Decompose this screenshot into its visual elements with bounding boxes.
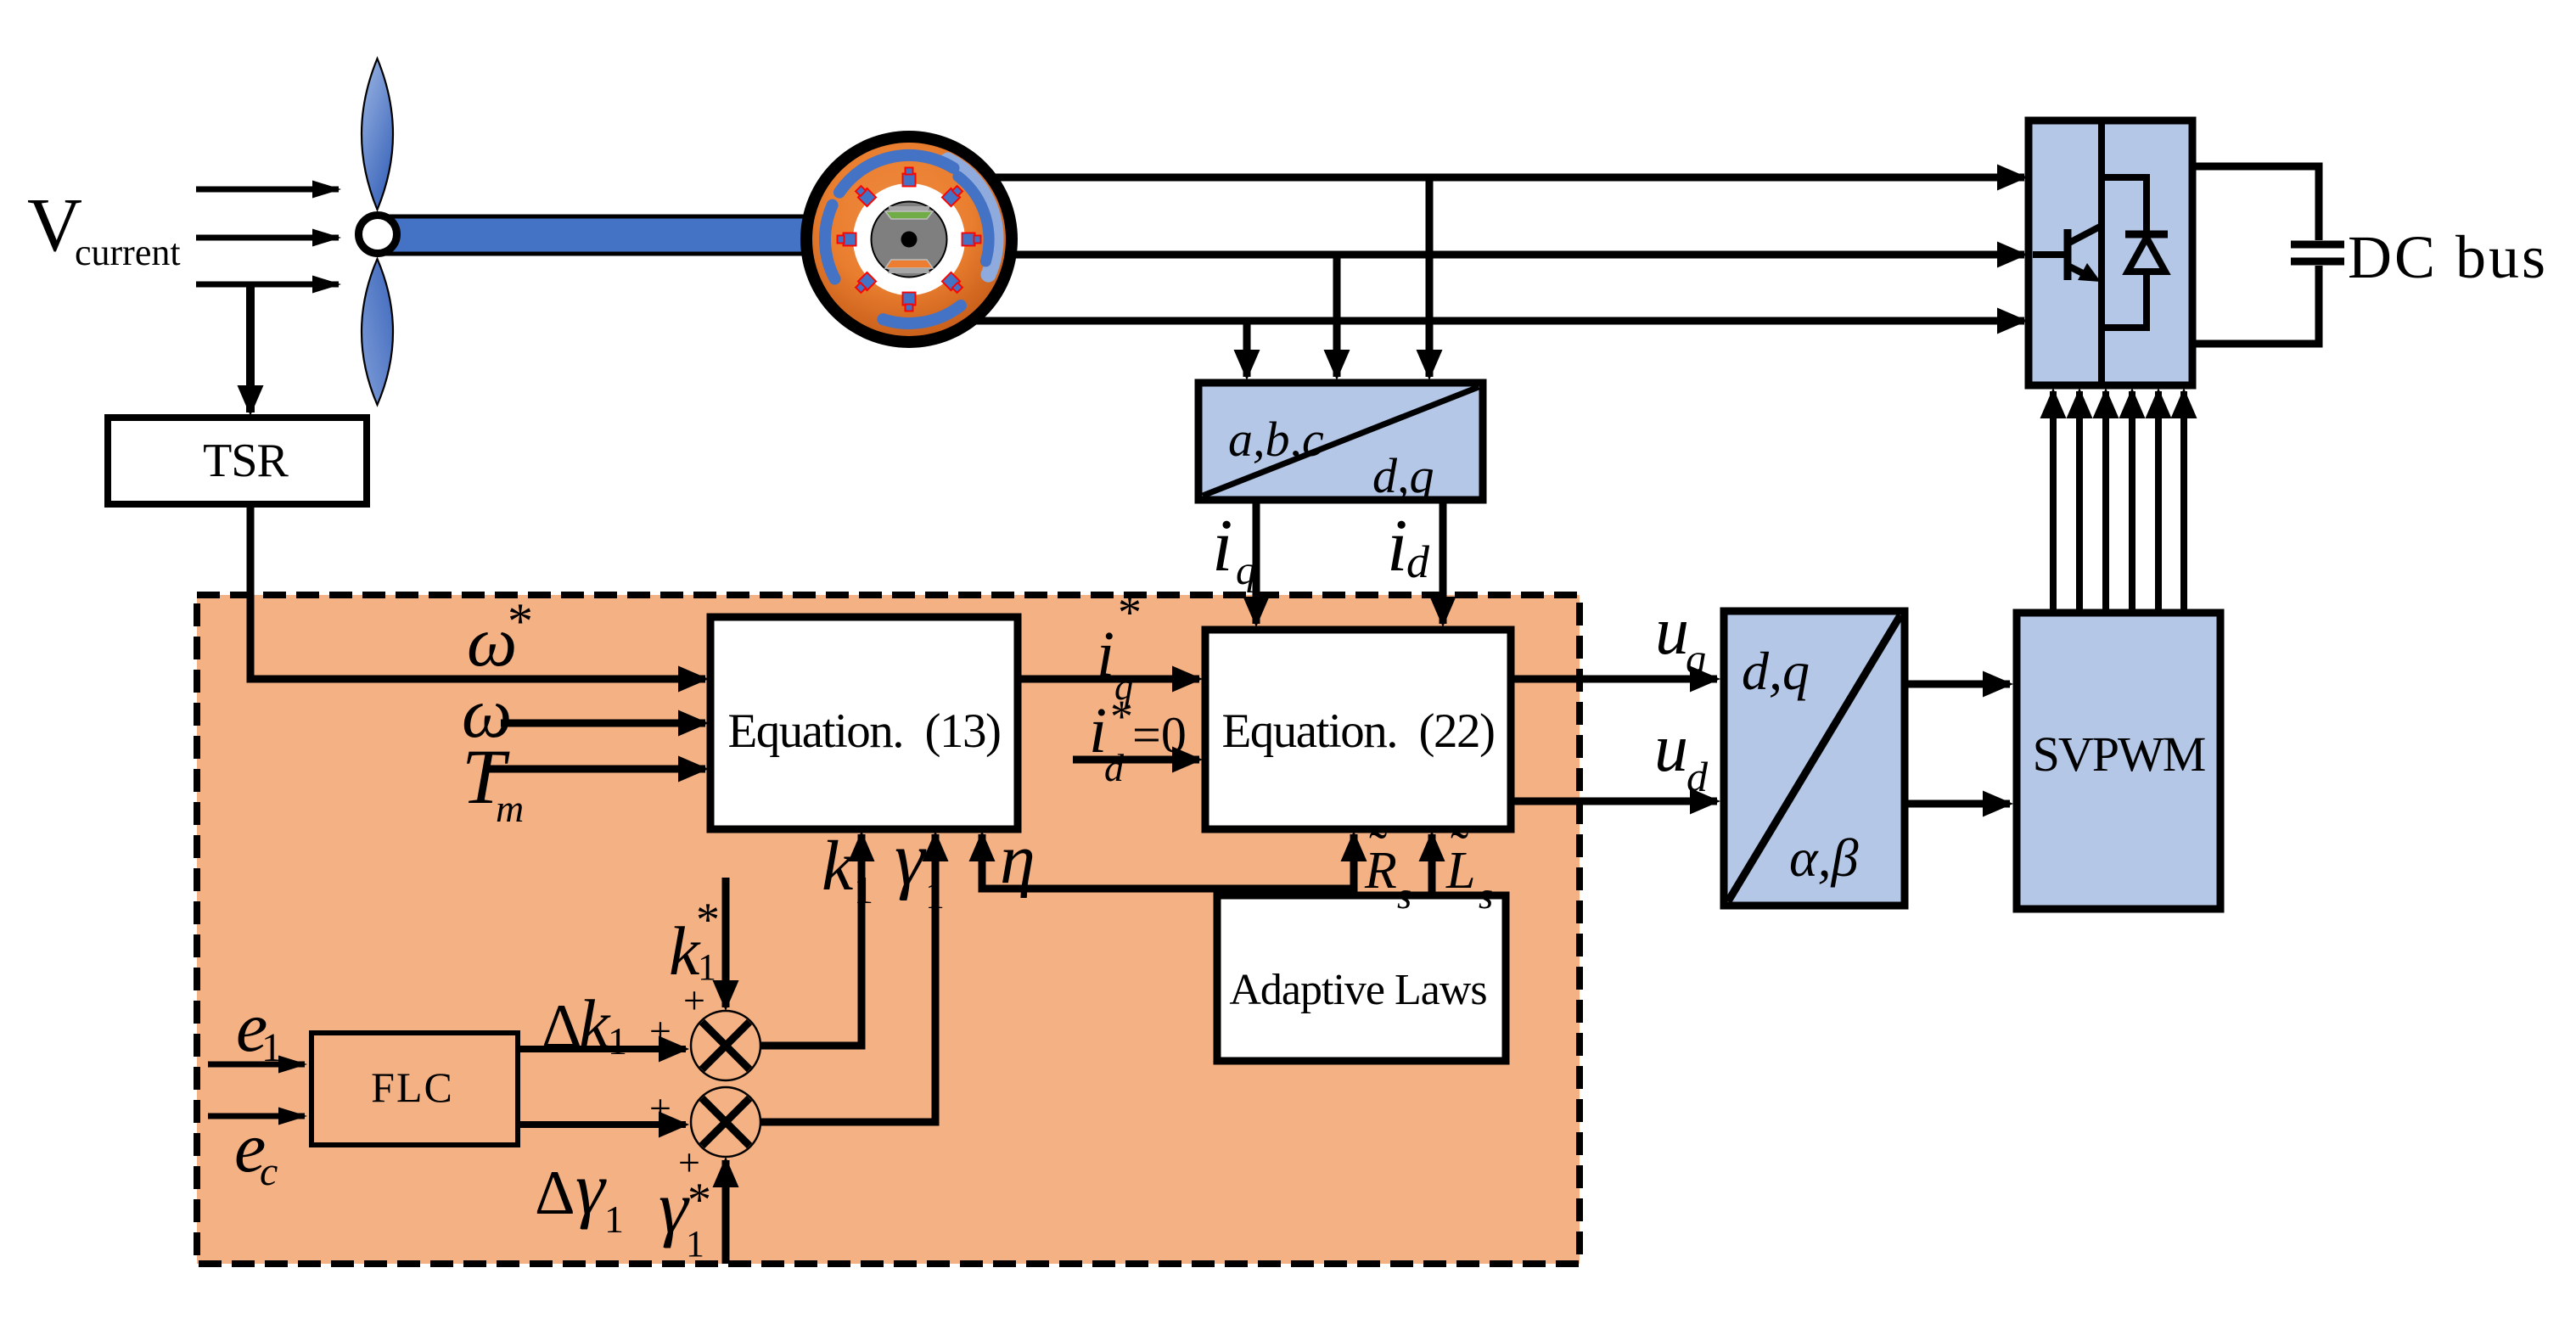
svg-text:1: 1 [925, 873, 945, 917]
svg-text:i: i [1097, 619, 1114, 690]
svg-text:q: q [1236, 548, 1256, 593]
svg-text:s: s [1479, 875, 1493, 917]
svg-text:*: * [696, 894, 720, 946]
svg-text:˜: ˜ [1369, 820, 1387, 880]
svg-text:Equation. (13): Equation. (13) [727, 704, 1000, 758]
svg-text:1: 1 [604, 1198, 624, 1241]
svg-text:d: d [1104, 746, 1125, 789]
svg-text:DC bus: DC bus [2348, 223, 2548, 291]
svg-text:k: k [579, 985, 611, 1063]
svg-text:u: u [1654, 711, 1688, 786]
svg-text:d,q: d,q [1742, 641, 1810, 701]
svg-text:γ: γ [895, 817, 927, 901]
svg-text:=0: =0 [1132, 707, 1187, 763]
svg-text:d: d [1406, 536, 1430, 587]
svg-text:+: + [649, 1009, 671, 1052]
svg-text:d,q: d,q [1372, 448, 1434, 503]
svg-text:+: + [683, 979, 705, 1022]
svg-text:a,b,c: a,b,c [1228, 412, 1324, 467]
svg-text:i: i [1387, 505, 1407, 587]
svg-text:TSR: TSR [203, 435, 289, 487]
svg-text:1: 1 [261, 1025, 282, 1070]
svg-text:1: 1 [854, 868, 873, 912]
svg-text:Equation. (22): Equation. (22) [1221, 704, 1494, 758]
svg-text:*: * [1118, 586, 1142, 639]
svg-text:c: c [260, 1149, 278, 1194]
svg-text:SVPWM: SVPWM [2033, 727, 2205, 782]
svg-text:Adaptive Laws: Adaptive Laws [1229, 966, 1486, 1014]
svg-text:Δ: Δ [535, 1158, 575, 1228]
svg-text:+: + [649, 1086, 671, 1130]
svg-text:*: * [1110, 691, 1133, 742]
svg-text:Δ: Δ [542, 992, 582, 1062]
svg-text:1: 1 [686, 1223, 704, 1265]
svg-text:*: * [508, 593, 533, 649]
svg-text:η: η [1000, 820, 1035, 899]
svg-text:˜: ˜ [1451, 820, 1468, 880]
svg-text:d: d [1686, 753, 1709, 800]
svg-text:u: u [1655, 594, 1689, 669]
svg-text:i: i [1212, 505, 1232, 587]
svg-text:s: s [1397, 875, 1411, 917]
svg-text:q: q [1686, 637, 1706, 682]
svg-text:FLC: FLC [371, 1063, 454, 1111]
svg-text:1: 1 [608, 1019, 627, 1063]
svg-text:α,β: α,β [1789, 827, 1859, 888]
svg-text:γ: γ [575, 1148, 607, 1231]
svg-text:+: + [678, 1141, 700, 1184]
svg-text:current: current [75, 232, 181, 273]
svg-text:k: k [822, 827, 855, 906]
svg-text:m: m [496, 787, 524, 830]
